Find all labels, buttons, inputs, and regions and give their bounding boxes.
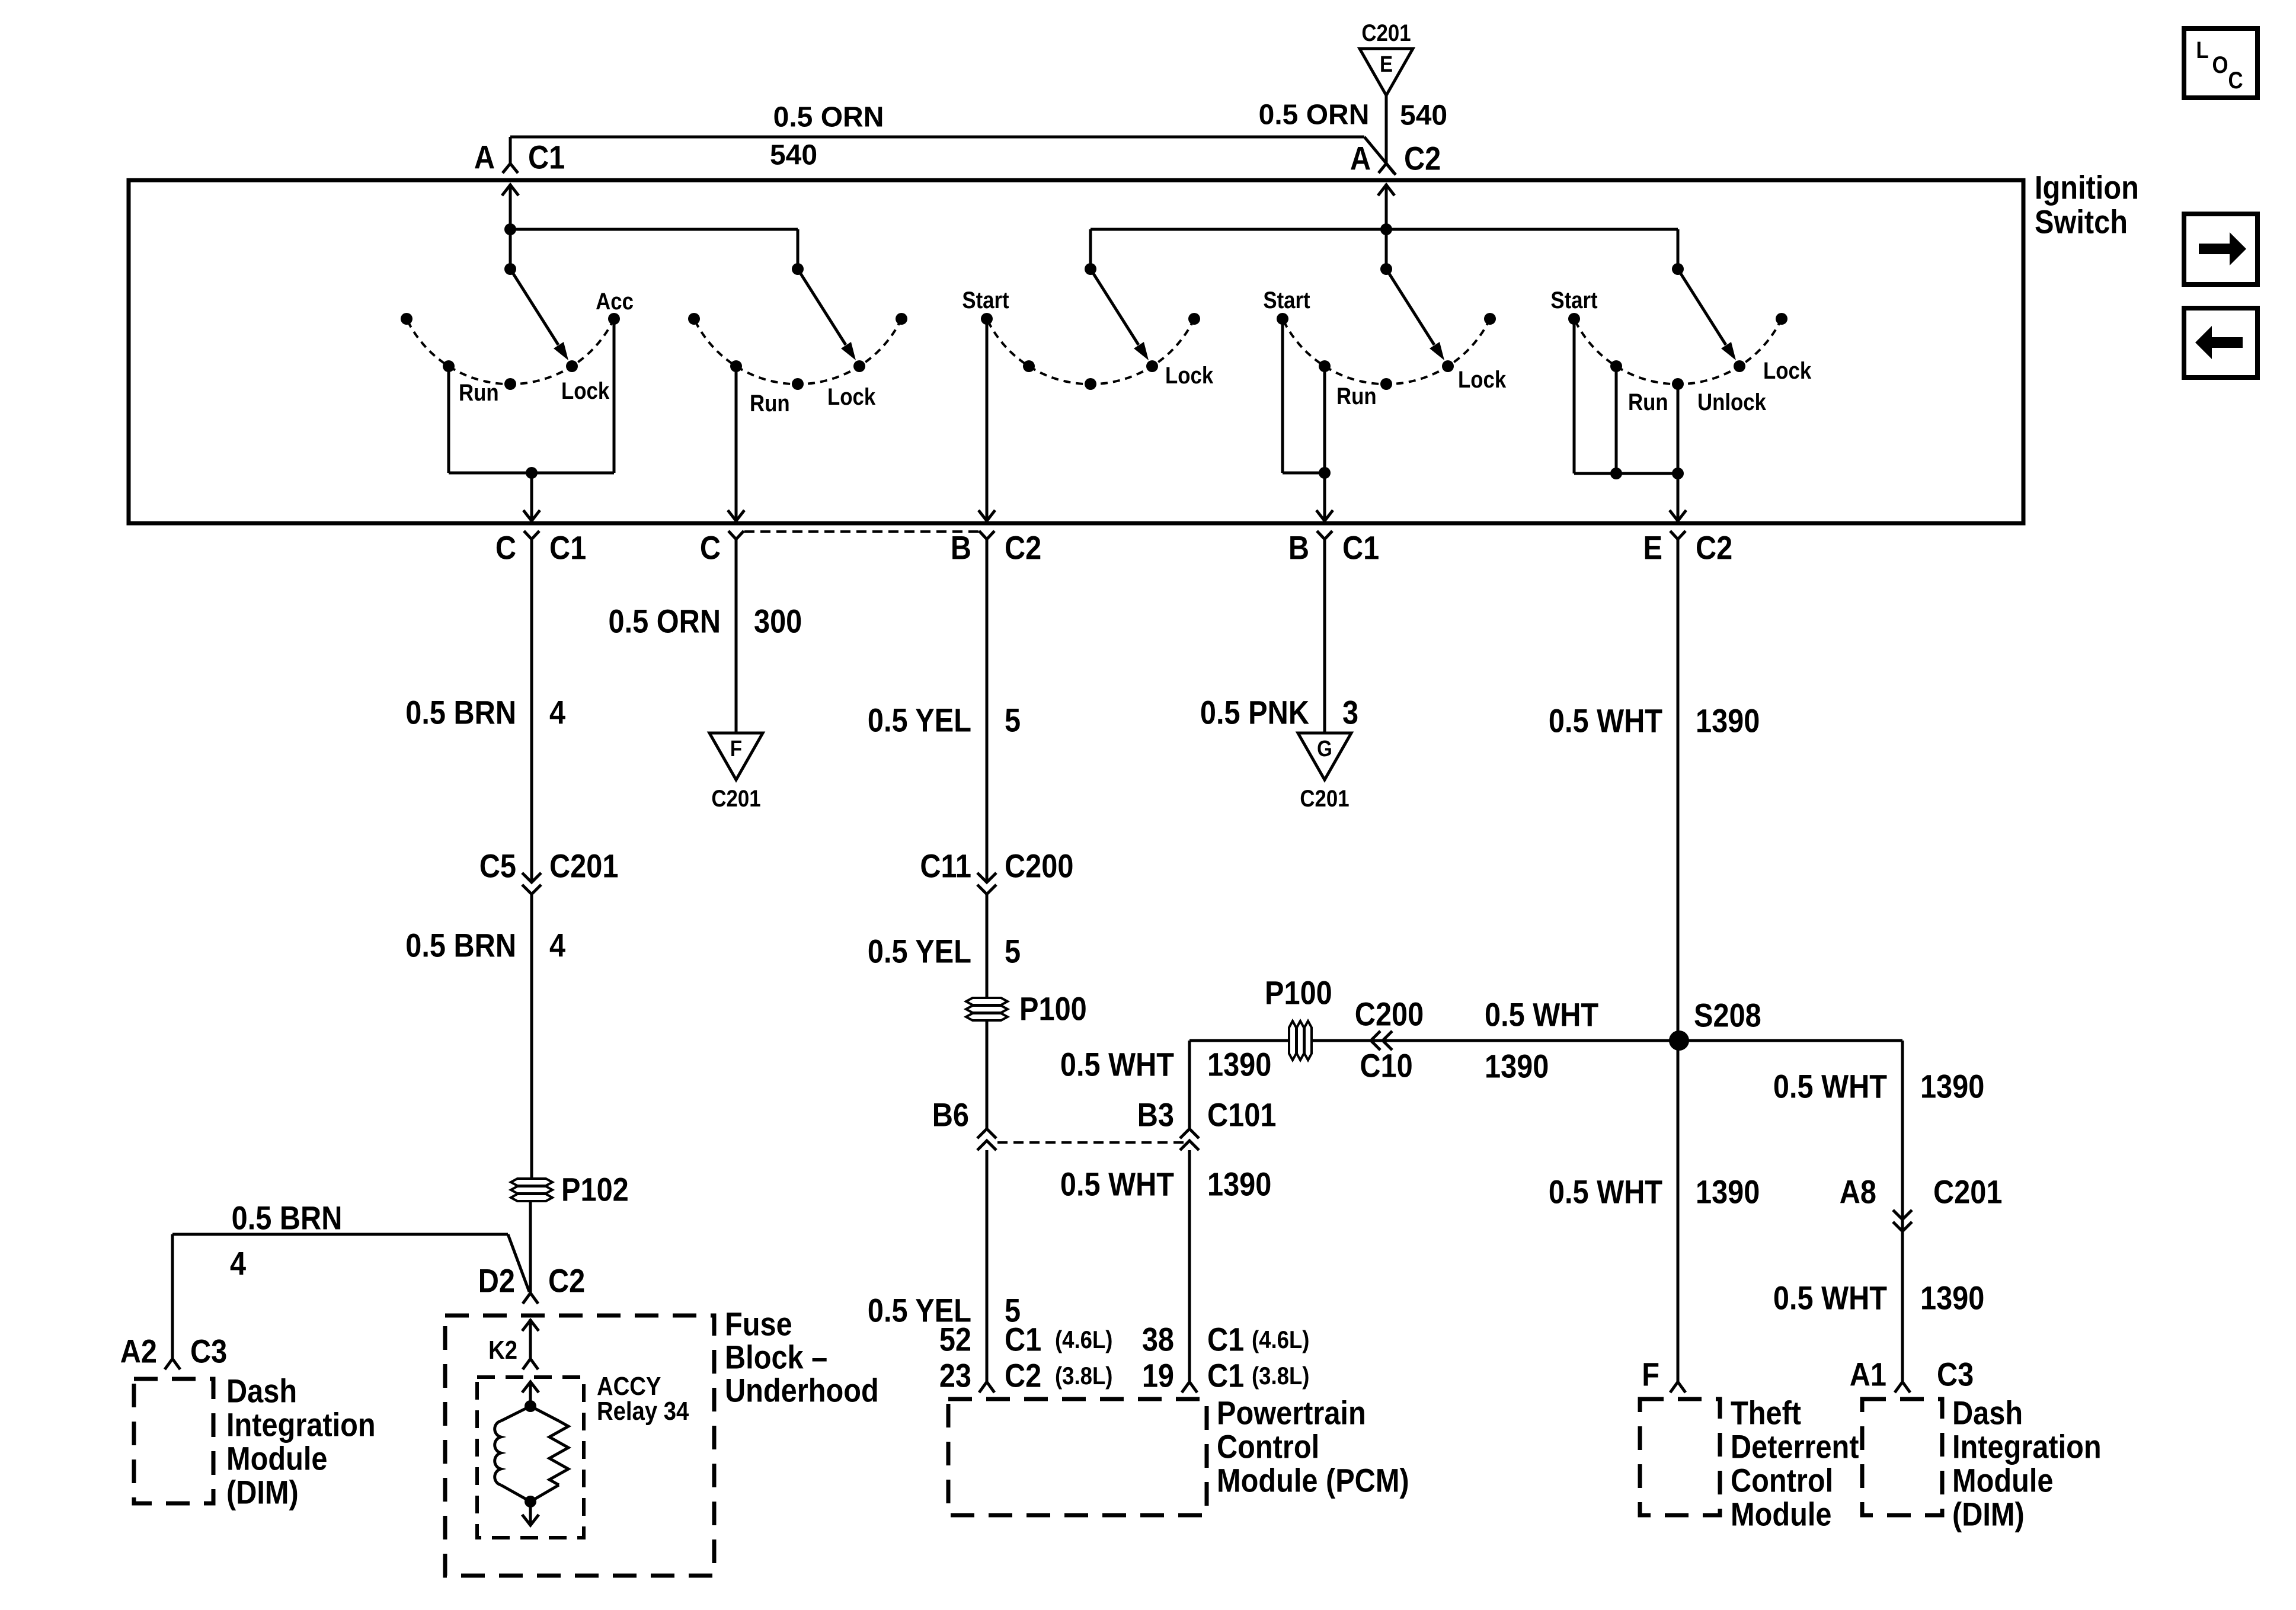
- svg-text:P100: P100: [1265, 975, 1332, 1012]
- svg-text:Start: Start: [1550, 287, 1598, 313]
- svg-text:A: A: [1350, 140, 1371, 178]
- svg-text:0.5 YEL: 0.5 YEL: [868, 702, 971, 740]
- svg-text:O: O: [2212, 52, 2228, 78]
- svg-text:Lock: Lock: [1458, 366, 1506, 393]
- svg-text:C101: C101: [1207, 1097, 1276, 1134]
- svg-text:Switch: Switch: [2035, 204, 2128, 241]
- svg-text:Deterrent: Deterrent: [1731, 1429, 1859, 1466]
- svg-text:F: F: [1642, 1356, 1659, 1394]
- svg-text:1390: 1390: [1920, 1280, 1984, 1317]
- svg-text:C2: C2: [1696, 530, 1732, 567]
- svg-text:1390: 1390: [1696, 1174, 1760, 1211]
- svg-text:C201: C201: [711, 785, 760, 812]
- svg-text:0.5 PNK: 0.5 PNK: [1200, 694, 1309, 732]
- svg-text:A8: A8: [1840, 1174, 1876, 1211]
- svg-text:0.5 WHT: 0.5 WHT: [1485, 997, 1598, 1034]
- svg-text:C201: C201: [1361, 20, 1411, 46]
- svg-text:1390: 1390: [1207, 1166, 1271, 1204]
- svg-text:C2: C2: [1005, 530, 1041, 567]
- svg-text:P100: P100: [1019, 991, 1087, 1028]
- svg-text:F: F: [730, 736, 742, 761]
- svg-text:0.5 ORN: 0.5 ORN: [773, 102, 884, 133]
- svg-text:23: 23: [939, 1358, 971, 1395]
- svg-text:19: 19: [1142, 1358, 1174, 1395]
- svg-text:Lock: Lock: [561, 377, 609, 404]
- svg-text:K2: K2: [488, 1335, 517, 1364]
- svg-text:A: A: [474, 139, 495, 177]
- svg-text:Integration: Integration: [226, 1407, 376, 1444]
- svg-text:Lock: Lock: [1763, 357, 1811, 384]
- svg-text:0.5 ORN: 0.5 ORN: [1259, 100, 1370, 131]
- svg-text:C2: C2: [1404, 140, 1441, 178]
- svg-text:0.5 WHT: 0.5 WHT: [1773, 1068, 1887, 1106]
- svg-text:(3.8L): (3.8L): [1252, 1362, 1309, 1390]
- svg-text:4: 4: [549, 694, 565, 732]
- svg-text:Unlock: Unlock: [1697, 389, 1766, 415]
- svg-text:Run: Run: [1628, 389, 1668, 415]
- svg-text:0.5 BRN: 0.5 BRN: [405, 694, 516, 732]
- svg-text:4: 4: [230, 1246, 246, 1283]
- svg-text:C: C: [700, 530, 721, 567]
- svg-text:Module: Module: [1952, 1462, 2053, 1500]
- svg-text:52: 52: [939, 1321, 971, 1359]
- svg-text:0.5 YEL: 0.5 YEL: [868, 933, 971, 971]
- svg-text:C: C: [2228, 67, 2243, 94]
- svg-text:Acc: Acc: [596, 288, 634, 315]
- svg-text:Module: Module: [226, 1441, 327, 1478]
- svg-text:(4.6L): (4.6L): [1055, 1326, 1112, 1354]
- svg-text:C200: C200: [1355, 996, 1424, 1033]
- svg-text:(4.6L): (4.6L): [1252, 1326, 1309, 1354]
- svg-text:C200: C200: [1005, 848, 1073, 885]
- svg-text:C1: C1: [1207, 1358, 1244, 1395]
- svg-text:Start: Start: [1263, 287, 1310, 313]
- svg-text:Lock: Lock: [1165, 362, 1213, 389]
- svg-text:S208: S208: [1694, 997, 1761, 1035]
- svg-text:1390: 1390: [1485, 1048, 1549, 1086]
- svg-text:C1: C1: [549, 530, 586, 567]
- svg-text:3: 3: [1342, 694, 1358, 732]
- svg-text:Run: Run: [1336, 383, 1377, 409]
- svg-text:540: 540: [1400, 100, 1447, 132]
- svg-text:5: 5: [1005, 933, 1021, 971]
- svg-text:C5: C5: [479, 848, 516, 885]
- svg-text:C1: C1: [1005, 1321, 1041, 1359]
- svg-text:B6: B6: [932, 1097, 969, 1134]
- svg-text:P102: P102: [561, 1172, 629, 1209]
- svg-text:C2: C2: [1005, 1358, 1041, 1395]
- svg-text:G: G: [1317, 736, 1332, 761]
- svg-text:B: B: [951, 530, 971, 567]
- svg-text:C201: C201: [1300, 785, 1349, 812]
- svg-text:1390: 1390: [1696, 703, 1760, 740]
- svg-text:Ignition: Ignition: [2035, 169, 2139, 207]
- svg-text:C1: C1: [1207, 1321, 1244, 1359]
- svg-text:D2: D2: [478, 1263, 515, 1300]
- svg-text:Lock: Lock: [827, 383, 875, 410]
- svg-text:C: C: [495, 530, 516, 567]
- svg-text:Underhood: Underhood: [725, 1372, 879, 1410]
- svg-text:Relay 34: Relay 34: [597, 1396, 689, 1425]
- svg-text:4: 4: [549, 927, 565, 965]
- svg-text:Integration: Integration: [1952, 1429, 2102, 1466]
- svg-text:(DIM): (DIM): [226, 1474, 299, 1512]
- svg-text:C10: C10: [1360, 1048, 1412, 1085]
- svg-text:A1: A1: [1850, 1356, 1886, 1394]
- svg-text:Run: Run: [459, 379, 499, 406]
- svg-text:Dash: Dash: [226, 1373, 297, 1410]
- svg-text:540: 540: [770, 140, 817, 171]
- svg-text:C2: C2: [548, 1263, 585, 1300]
- svg-text:E: E: [1380, 52, 1393, 77]
- svg-text:E: E: [1643, 530, 1662, 567]
- svg-text:C3: C3: [1937, 1356, 1974, 1394]
- svg-text:C1: C1: [528, 139, 565, 177]
- svg-text:Start: Start: [962, 287, 1009, 313]
- svg-text:300: 300: [754, 603, 802, 641]
- svg-text:C3: C3: [190, 1333, 227, 1371]
- svg-text:Control: Control: [1731, 1462, 1833, 1500]
- svg-text:A2: A2: [120, 1333, 157, 1371]
- svg-text:C1: C1: [1342, 530, 1379, 567]
- svg-text:0.5 BRN: 0.5 BRN: [232, 1200, 343, 1237]
- svg-text:0.5 WHT: 0.5 WHT: [1549, 703, 1662, 740]
- svg-text:Module: Module: [1731, 1496, 1831, 1534]
- svg-text:0.5 ORN: 0.5 ORN: [609, 603, 721, 641]
- svg-text:(3.8L): (3.8L): [1055, 1362, 1112, 1390]
- svg-text:38: 38: [1142, 1321, 1174, 1359]
- svg-text:1390: 1390: [1207, 1046, 1271, 1084]
- svg-text:1390: 1390: [1920, 1068, 1984, 1106]
- svg-text:Dash: Dash: [1952, 1395, 2023, 1432]
- svg-text:0.5 WHT: 0.5 WHT: [1060, 1046, 1174, 1084]
- svg-text:Theft: Theft: [1731, 1395, 1801, 1432]
- svg-text:Block –: Block –: [725, 1339, 827, 1377]
- svg-text:Fuse: Fuse: [725, 1306, 792, 1343]
- svg-text:Powertrain: Powertrain: [1217, 1395, 1366, 1432]
- svg-text:0.5 WHT: 0.5 WHT: [1549, 1174, 1662, 1211]
- svg-text:C11: C11: [920, 848, 971, 885]
- svg-text:B: B: [1288, 530, 1309, 567]
- svg-text:Control: Control: [1217, 1429, 1319, 1466]
- svg-text:0.5 BRN: 0.5 BRN: [405, 927, 516, 965]
- svg-text:C201: C201: [1933, 1174, 2002, 1211]
- svg-text:5: 5: [1005, 702, 1021, 740]
- svg-text:Module (PCM): Module (PCM): [1217, 1462, 1409, 1500]
- svg-text:B3: B3: [1137, 1097, 1174, 1134]
- svg-text:C201: C201: [549, 848, 618, 885]
- svg-text:L: L: [2196, 37, 2208, 63]
- svg-text:(DIM): (DIM): [1952, 1496, 2025, 1534]
- svg-text:0.5 WHT: 0.5 WHT: [1773, 1280, 1887, 1317]
- svg-text:0.5 WHT: 0.5 WHT: [1060, 1166, 1174, 1204]
- svg-text:Run: Run: [750, 390, 790, 417]
